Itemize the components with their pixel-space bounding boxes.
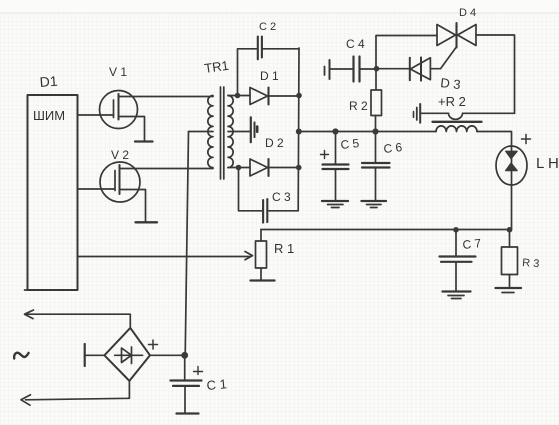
svg-text:+R 2: +R 2	[438, 94, 466, 109]
svg-text:C 4: C 4	[346, 37, 365, 51]
svg-text:ШИМ: ШИМ	[33, 108, 65, 123]
svg-text:C 5: C 5	[340, 136, 360, 152]
svg-text:D 4: D 4	[459, 7, 476, 19]
svg-text:D 2: D 2	[265, 136, 284, 150]
svg-text:L H: L H	[536, 155, 559, 172]
svg-text:C 3: C 3	[272, 190, 291, 204]
svg-text:C 6: C 6	[383, 140, 403, 156]
svg-text:D 1: D 1	[260, 69, 279, 83]
svg-text:C 1: C 1	[206, 376, 227, 393]
svg-text:R 1: R 1	[274, 241, 294, 256]
svg-text:V 2: V 2	[111, 148, 129, 162]
svg-text:R 3: R 3	[522, 257, 540, 270]
svg-text:D 3: D 3	[440, 75, 462, 92]
svg-text:V 1: V 1	[109, 65, 127, 79]
svg-text:R 2: R 2	[349, 99, 368, 113]
svg-text:C 2: C 2	[259, 21, 276, 33]
svg-text:C 7: C 7	[462, 236, 482, 252]
svg-text:D1: D1	[39, 73, 58, 90]
